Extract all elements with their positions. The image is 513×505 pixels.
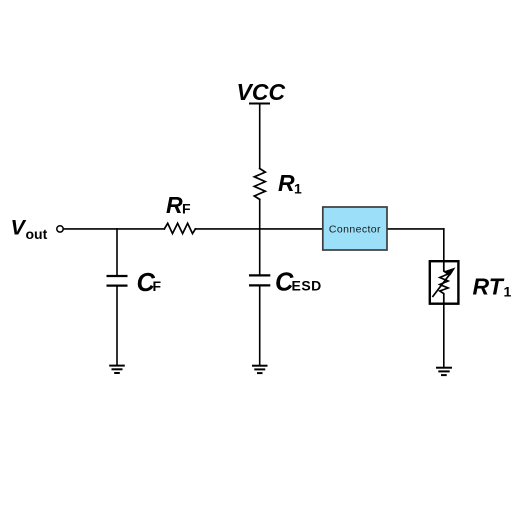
svg-text:VCC: VCC: [237, 79, 286, 105]
svg-text:R: R: [166, 192, 183, 218]
svg-text:V: V: [11, 216, 27, 240]
svg-text:out: out: [26, 226, 48, 242]
svg-text:Connector: Connector: [329, 223, 381, 235]
svg-text:F: F: [153, 278, 162, 294]
svg-text:1: 1: [504, 283, 512, 299]
svg-text:F: F: [182, 200, 191, 216]
svg-text:R: R: [278, 170, 295, 196]
svg-text:1: 1: [294, 180, 302, 196]
svg-text:RT: RT: [473, 273, 505, 299]
svg-text:ESD: ESD: [292, 278, 322, 294]
